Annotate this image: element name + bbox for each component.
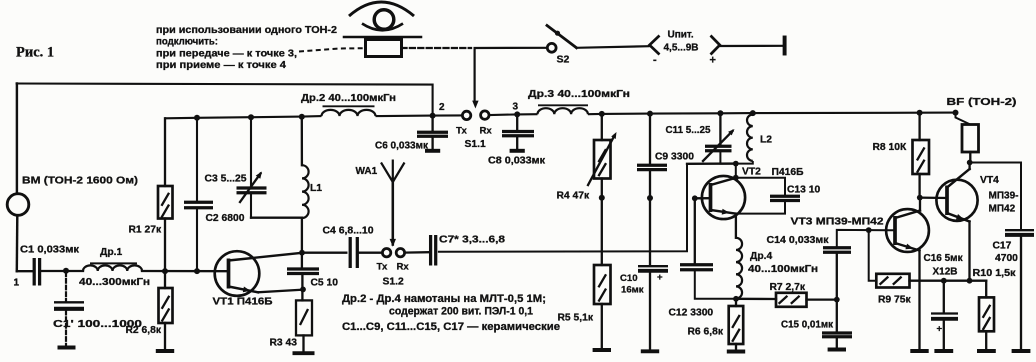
svg-text:R10 1,5к: R10 1,5к [973, 268, 1016, 279]
node C11 rail junction [717, 110, 723, 116]
wire rail to R8 [918, 113, 920, 140]
wire R7 to C14 node [807, 298, 837, 300]
wire R8 to VT4 base node [918, 174, 920, 198]
node C1prime junction [63, 268, 69, 274]
label Dr4 value [748, 264, 818, 275]
note text line 2 [156, 37, 218, 48]
svg-text:Др.2 - Др.4 намотаны на МЛТ-0,: Др.2 - Др.4 намотаны на МЛТ-0,5 1М; [342, 293, 546, 305]
wire L2 bottom lead [736, 161, 753, 178]
svg-text:С17: С17 [993, 241, 1012, 252]
svg-text:С9 3300: С9 3300 [655, 152, 694, 163]
svg-text:Rх: Rх [397, 262, 410, 273]
svg-text:R3 43: R3 43 [270, 338, 298, 349]
label VT3 [791, 217, 884, 228]
node C9 rail junction [647, 111, 653, 117]
svg-text:содержат 200 вит. ПЭЛ-1 0,1: содержат 200 вит. ПЭЛ-1 0,1 [389, 305, 533, 317]
svg-text:С15 0,01мк: С15 0,01мк [781, 320, 834, 331]
svg-text:при использовании одного ТОН-2: при использовании одного ТОН-2 [156, 25, 337, 36]
resistor R5 [594, 265, 611, 304]
label C2 [206, 213, 245, 224]
wire VT3 base line [837, 230, 895, 247]
label R8 [873, 142, 907, 153]
node C2 junction [194, 268, 200, 274]
label C6 [375, 141, 429, 152]
label C3 [205, 174, 247, 185]
inductor Dr1 [83, 265, 142, 271]
wire C1 to Dr1 [42, 270, 84, 272]
electrolytic C10 [638, 266, 668, 271]
svg-text:4,5...9В: 4,5...9В [664, 43, 699, 54]
wire C17 to ground [1020, 236, 1022, 350]
node C12 base junction [692, 195, 698, 201]
svg-text:BF (ТОН-2): BF (ТОН-2) [947, 97, 1017, 108]
ground below R2 [156, 323, 174, 351]
svg-text:VT2: VT2 [742, 167, 761, 178]
node R8 rail junction [917, 110, 923, 116]
arrowhead onto S1.2 [390, 239, 396, 247]
wire VT4 collector riser [968, 163, 970, 170]
node C9 base junction [647, 195, 653, 201]
wire mic bottom lead [16, 215, 19, 271]
capacitor C5 [287, 269, 319, 274]
wire C1prime dashed bottom [65, 311, 67, 345]
node 3 label [513, 102, 519, 113]
label S1.1 Rx [480, 126, 493, 137]
node L1 rail junction [299, 114, 305, 120]
wire C4 to S1.2 [359, 252, 382, 254]
node Dr4 bottom junction [733, 296, 739, 302]
transistor VT1 [215, 251, 302, 296]
svg-text:МП42: МП42 [989, 204, 1016, 215]
label VT2 [742, 167, 761, 178]
earphone BF2 lower arc [362, 24, 403, 31]
figure caption [16, 45, 54, 61]
svg-text:С5 10: С5 10 [311, 278, 339, 289]
note text line 4 [156, 60, 286, 71]
label S1.2 Tx [377, 262, 388, 273]
wire C8 lead [516, 114, 518, 130]
capacitor C14 [823, 248, 851, 253]
resistor R9 [876, 274, 909, 288]
capacitor C12 [680, 265, 713, 270]
node top-rail junction [430, 113, 436, 119]
svg-text:С6 0,033мк: С6 0,033мк [375, 141, 429, 152]
ground below C15 [828, 338, 846, 350]
wire C1prime dashed top [65, 273, 67, 301]
electrolytic C16 [931, 314, 958, 319]
svg-text:4700: 4700 [995, 253, 1018, 264]
wire VT2 emitter to Dr4 [735, 214, 737, 238]
svg-text:VT1 П416Б: VT1 П416Б [213, 297, 274, 308]
inductor L2 [747, 115, 753, 161]
resistor R3 [296, 300, 312, 335]
wire L1 top lead [301, 117, 303, 166]
label BM [22, 176, 138, 187]
svg-text:С7* 3,3...6,8: С7* 3,3...6,8 [439, 235, 505, 246]
capacitor C13 [770, 196, 800, 200]
label C1prime [53, 319, 142, 330]
capacitor C6 [417, 132, 448, 136]
wire C12 top lead [694, 198, 696, 263]
wire C5 to R3 [301, 275, 303, 301]
wire S1.1 arm feed corner [474, 48, 476, 103]
node C2 rail junction [194, 115, 200, 121]
wire mid rail right segment [489, 108, 955, 115]
node VT4 collector junction [967, 160, 973, 166]
wire collector node to C17 [970, 163, 1021, 230]
label C17 value [995, 253, 1018, 264]
wire mid rail left segment [165, 110, 462, 118]
svg-text:Rх: Rх [480, 126, 493, 137]
wire arm feed to S2 [475, 47, 547, 49]
svg-text:+: + [937, 324, 943, 335]
inductor Dr4 [736, 238, 742, 299]
svg-text:40...100мкГн: 40...100мкГн [748, 264, 818, 275]
wire R1 to base [164, 219, 166, 272]
svg-text:С10: С10 [620, 273, 638, 284]
label BF [947, 97, 1017, 108]
wire C9 to base node [649, 171, 651, 198]
label VT4 type2 [989, 204, 1016, 215]
wire battery to terminal [721, 45, 784, 47]
dashed wire earphone to S1.1 arm [402, 47, 472, 49]
label S1.1 Tx [456, 126, 467, 137]
wire tank bottom [251, 217, 302, 219]
capacitor C2 [184, 202, 213, 208]
ground below VT3 emitter [910, 349, 928, 353]
trimmer capacitor C11 [703, 129, 735, 161]
label C11 [666, 125, 711, 136]
wire R9 riser [869, 230, 877, 281]
wire VT4 base stub [920, 196, 947, 199]
svg-text:Рис. 1: Рис. 1 [16, 45, 54, 61]
wire C7 to tank riser [438, 164, 687, 252]
inductor Dr2 core line [324, 105, 374, 107]
svg-text:VT4: VT4 [980, 175, 999, 186]
label WA1 [356, 166, 378, 177]
label L1 [310, 183, 322, 194]
label C5 [311, 278, 339, 289]
label C10 plus [657, 272, 663, 283]
svg-text:С14 0,033мк: С14 0,033мк [767, 235, 830, 246]
wire C2 top lead [196, 118, 198, 201]
wire C11 bottom lead [720, 152, 735, 164]
switch S1.2 Rx contact [396, 249, 404, 257]
switch S1.2 Tx contact [382, 249, 390, 257]
wire antenna down lead [392, 182, 395, 245]
inductor Dr1 core line [91, 262, 136, 264]
node BF rail junction [953, 110, 959, 116]
label C13 [787, 185, 820, 196]
svg-text:R5 5,1к: R5 5,1к [558, 313, 594, 324]
svg-text:Др.1: Др.1 [100, 247, 122, 258]
earphone BF2 circle [374, 10, 394, 30]
node VT4 base junction [917, 195, 923, 201]
node 3 junction [514, 111, 520, 117]
earphone BF box [962, 125, 979, 153]
ground below C1prime [58, 346, 76, 350]
svg-text:при приеме — к точке 4: при приеме — к точке 4 [156, 60, 286, 71]
wire C13 loop top [736, 178, 785, 195]
svg-text:ВМ (ТОН-2 1600 Ом): ВМ (ТОН-2 1600 Ом) [22, 176, 138, 187]
svg-text:2: 2 [439, 102, 445, 113]
switch S1.1 Tx contact [462, 111, 470, 119]
node 1 label [14, 278, 20, 289]
svg-text:VT3 МП39-МП42: VT3 МП39-МП42 [791, 217, 884, 228]
wire rail to R4 [601, 114, 603, 140]
label R7 [770, 282, 806, 293]
svg-text:L2: L2 [760, 135, 772, 146]
transistor VT2 [702, 176, 745, 219]
resistor R6 [729, 306, 744, 344]
note text line 1 [156, 25, 337, 36]
note text line 3 [156, 48, 297, 59]
svg-text:WA1: WA1 [356, 166, 378, 177]
switch S2 blade [547, 26, 577, 48]
capacitor C8 [502, 132, 534, 136]
label Dr2 [301, 93, 396, 104]
label R9 [878, 295, 911, 306]
svg-text:R8 10К: R8 10К [873, 142, 907, 153]
label R4 [557, 191, 590, 202]
label C7 [439, 235, 505, 246]
svg-text:Uпит.: Uпит. [668, 30, 694, 41]
wire VT4 emitter drop [968, 222, 970, 281]
wire C6 lead [431, 116, 433, 131]
label minus [653, 54, 657, 66]
wire rail to BF [956, 113, 971, 125]
svg-text:40...300мкГн: 40...300мкГн [79, 277, 150, 288]
wire C16 lead [943, 281, 945, 313]
label C16 voltage [933, 267, 958, 278]
label plus [710, 55, 716, 67]
wire C3 bottom lead [250, 194, 252, 218]
transistor VT3 [886, 209, 929, 252]
wire C16 to ground [943, 320, 945, 350]
svg-text:16мк: 16мк [621, 285, 644, 296]
svg-text:1: 1 [14, 278, 20, 289]
label S1.1 [465, 139, 486, 150]
wire BF to collector node [969, 152, 971, 163]
dashed wire from note to earphone [299, 48, 366, 51]
wire VT2 base stub [695, 197, 711, 199]
svg-text:+: + [710, 55, 716, 67]
wire C3 top lead [250, 117, 252, 187]
component note line 3 [342, 321, 560, 333]
wire emitter line [910, 280, 987, 282]
inductor Dr3 core line [539, 104, 587, 106]
node C3 rail junction [248, 114, 254, 120]
svg-text:С12 3300: С12 3300 [669, 308, 714, 319]
wire base node to C10 [649, 198, 651, 266]
wire VT3 emitter [918, 251, 920, 350]
node R4 R5 junction [599, 195, 605, 201]
wire Dr4 node to R6 [735, 299, 737, 306]
label S2 [557, 54, 570, 66]
battery connector right chevron [711, 36, 720, 55]
wire C2 bottom lead [196, 209, 198, 271]
ground below C8 [510, 137, 525, 150]
component note line 2 [389, 305, 533, 317]
label C8 [488, 156, 546, 167]
ground below C16 [934, 349, 953, 353]
component note line 1 [342, 293, 546, 305]
label Dr3 [528, 89, 630, 100]
capacitor C1prime [54, 302, 84, 309]
svg-text:R1 27к: R1 27к [129, 225, 162, 236]
label R5 [558, 313, 594, 324]
svg-text:С16 5мк: С16 5мк [924, 253, 964, 264]
wire R10 to ground [985, 331, 987, 350]
wire rail to R1 [164, 118, 166, 186]
node VT3 base junction [866, 227, 872, 233]
node R4 rail junction [599, 111, 605, 117]
label S1.2 [383, 277, 404, 288]
resistor R10 [979, 297, 994, 331]
wire C13 loop bottom [736, 202, 785, 214]
label C4 [323, 226, 374, 237]
node L2 rail junction [750, 110, 756, 116]
svg-text:С11 5...25: С11 5...25 [666, 125, 711, 136]
wire L1 bottom to node A [301, 218, 303, 253]
microphone BM [7, 194, 29, 216]
arrowhead onto S1.1 [472, 101, 478, 109]
svg-text:МП39-: МП39- [989, 191, 1019, 202]
capacitor C7 [431, 235, 436, 266]
label L2 [760, 135, 772, 146]
svg-text:С4 6,8...10: С4 6,8...10 [323, 226, 374, 237]
label Dr1 value [79, 277, 150, 288]
svg-text:при передаче — к точке 3,: при передаче — к точке 3, [156, 48, 297, 59]
node tank bottom junction [733, 161, 739, 167]
label S1.2 Rx [397, 262, 410, 273]
node emitter junction [300, 287, 306, 293]
ground below R5 [593, 304, 611, 350]
label VT2 type [772, 167, 805, 178]
svg-text:П416Б: П416Б [772, 167, 805, 178]
wire VT3 collector [919, 198, 921, 211]
node A collector junction [299, 250, 305, 256]
trimmer capacitor C3 [237, 172, 267, 203]
svg-text:S2: S2 [557, 54, 570, 66]
capacitor C4 [350, 237, 357, 268]
wire Dr4 node to R7 [736, 298, 776, 301]
label R1 [129, 225, 162, 236]
svg-text:Х12В: Х12В [933, 267, 958, 278]
inductor L1 [302, 165, 309, 218]
resistor R8 [913, 140, 930, 174]
wire base to R2 [164, 271, 166, 288]
label VT4 type1 [989, 191, 1019, 202]
earphone BF2 upper arc [349, 2, 414, 16]
svg-text:3: 3 [513, 102, 519, 113]
wire C14 bottom lead [836, 254, 838, 333]
svg-text:S1.2: S1.2 [383, 277, 404, 288]
label C16 plus [937, 324, 943, 335]
svg-text:С1...С9, С11...С15, С17 — кера: С1...С9, С11...С15, С17 — керамические [342, 321, 560, 333]
ground below R6 [727, 344, 745, 352]
wire base node to R5 [601, 198, 603, 265]
label C9 [655, 152, 694, 163]
resistor R2 [159, 288, 173, 323]
svg-text:Тх: Тх [456, 126, 467, 137]
label R3 [270, 338, 298, 349]
svg-text:-: - [653, 54, 657, 66]
capacitor C9 [637, 165, 667, 169]
wire node A to C5 [301, 253, 303, 268]
earphone BF2 coil box [366, 40, 402, 57]
wire node A to C4 [302, 252, 346, 254]
svg-text:Др.4: Др.4 [750, 251, 772, 262]
node C14 R7 junction [834, 297, 840, 303]
wire S2 to battery connector [577, 46, 649, 48]
label C10 [620, 273, 644, 296]
svg-text:R9 75к: R9 75к [878, 295, 911, 306]
svg-text:L1: L1 [310, 183, 322, 194]
switch S1.1 Rx contact [481, 111, 489, 119]
label VT4 [980, 175, 999, 186]
label R6 [688, 327, 724, 338]
wire Dr1 to VT1 base [142, 270, 229, 273]
ground below C17 [1012, 349, 1031, 353]
resistor R1 [158, 186, 173, 219]
svg-text:С1 0,033мк: С1 0,033мк [20, 245, 80, 256]
transistor VT4 [936, 169, 977, 222]
wire VT1 emitter [258, 290, 302, 293]
ground below C10 [641, 273, 659, 352]
switch S2 contact [547, 43, 556, 52]
svg-text:подключить:: подключить: [156, 37, 218, 48]
svg-text:Др.3 40...100мкГн: Др.3 40...100мкГн [528, 89, 630, 100]
battery connector left chevron [650, 36, 660, 55]
ground below R3 [293, 336, 315, 354]
terminal bar [783, 38, 787, 54]
wire mic top lead [16, 84, 18, 194]
label C1 [20, 245, 80, 256]
svg-text:S1.1: S1.1 [465, 139, 486, 150]
svg-text:R7 2,7к: R7 2,7к [770, 282, 806, 293]
resistor R7 [776, 293, 807, 307]
wire R10 lead [985, 281, 987, 298]
node R1 R2 junction [162, 268, 168, 274]
electrolytic C17 [1005, 230, 1034, 235]
svg-text:R4 47к: R4 47к [557, 191, 590, 202]
wire rail to C9 [649, 114, 651, 165]
label C16 [924, 253, 964, 264]
svg-text:+: + [657, 272, 663, 283]
svg-text:С2 6800: С2 6800 [206, 213, 245, 224]
wire tank bottom to VT2 collector node [687, 162, 736, 165]
svg-text:Тх: Тх [377, 262, 388, 273]
label C12 [669, 308, 714, 319]
label VT1 [213, 297, 274, 308]
ground below R10 [977, 349, 996, 353]
svg-text:R2 6,8к: R2 6,8к [126, 325, 162, 336]
earphone BF2 base line [344, 36, 421, 39]
node VT4 emitter junction [967, 278, 973, 284]
label Upit [668, 30, 694, 41]
label C17 [993, 241, 1012, 252]
capacitor C1 [34, 258, 39, 286]
label C15 [781, 320, 834, 331]
wire base line VT1 left [17, 270, 33, 272]
antenna WA1 [381, 160, 405, 183]
wire R4 to base node [601, 179, 603, 198]
label Dr4 [750, 251, 772, 262]
wire S1.2 to C7 [405, 251, 429, 254]
label Dr1 [100, 247, 122, 258]
ground below C6 [425, 138, 440, 151]
